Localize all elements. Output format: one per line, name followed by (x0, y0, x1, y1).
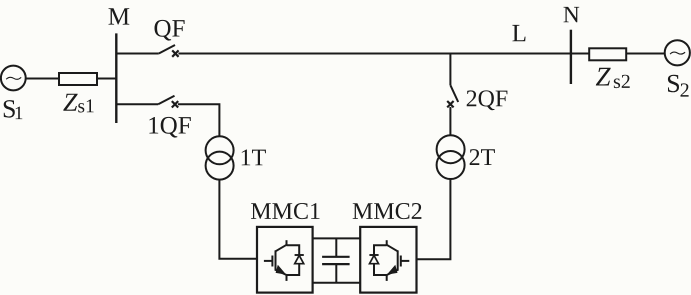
wire bus M to QF (116, 53, 159, 55)
wire 1QF to 1T (178, 104, 220, 136)
label L (512, 25, 525, 41)
label M (109, 8, 130, 24)
source S1 (1, 66, 26, 91)
circuit breaker 1QF (158, 96, 178, 108)
label 2QF (467, 90, 508, 110)
wire DC link top (313, 237, 361, 239)
label QF (155, 20, 185, 41)
label 2T (470, 149, 495, 165)
IGBT Q1 (264, 240, 299, 281)
diode D1 (295, 255, 304, 264)
wire S1 to Zs1 (26, 78, 59, 80)
circuit breaker 2QF (447, 85, 458, 107)
wire Zs2 to S2 (626, 53, 665, 55)
diode D2 (369, 255, 378, 264)
impedance Zs2 (589, 48, 626, 60)
wire Zs1 to bus M (97, 78, 116, 80)
label MMC1 (251, 203, 320, 219)
circuit breaker QF (159, 45, 179, 57)
bus M (115, 33, 117, 123)
label MMC2 (353, 203, 422, 219)
converter MMC1 box (257, 227, 313, 293)
label S2 (668, 75, 689, 97)
wire bus M to 1QF (116, 103, 158, 105)
wire DC link bottom (313, 282, 361, 284)
label Zs1 (63, 94, 93, 113)
IGBT Q2 (374, 240, 409, 281)
converter MMC2 box (360, 227, 416, 293)
capacitor C1 (322, 238, 350, 282)
label N (564, 7, 580, 22)
wire 2QF to 2T (449, 107, 451, 135)
source S2 (665, 40, 690, 65)
wire 1T to MMC1 (219, 180, 257, 259)
impedance Zs1 (59, 73, 97, 85)
wire line L (178, 53, 589, 55)
label 1QF (149, 117, 190, 138)
label 1T (242, 150, 266, 166)
label S1 (4, 100, 23, 119)
wire 2T to MMC2 (417, 179, 451, 259)
transformer 2T (437, 135, 465, 179)
bus N (570, 30, 572, 84)
label Zs2 (596, 68, 630, 88)
transformer 1T (206, 136, 234, 179)
wire line L to 2QF (449, 54, 451, 86)
